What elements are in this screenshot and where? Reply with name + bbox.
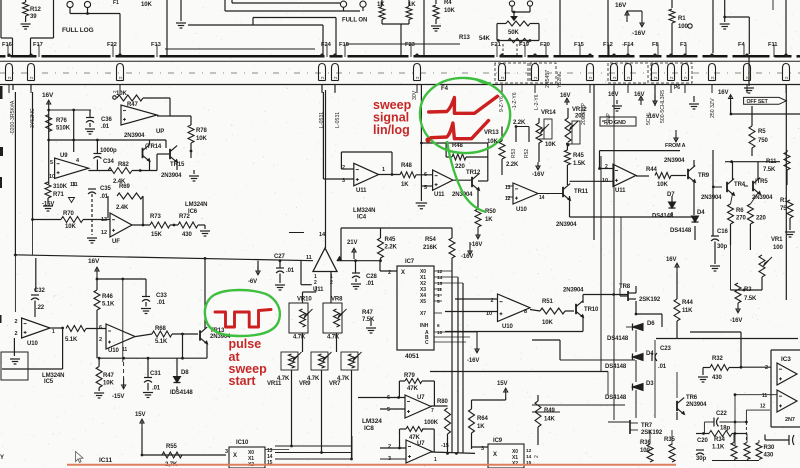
svg-text:100K: 100K	[424, 420, 439, 426]
svg-text:.01: .01	[157, 300, 166, 306]
svg-text:10K: 10K	[657, 182, 668, 188]
svg-text:VR12: VR12	[572, 107, 587, 113]
svg-text:F18: F18	[339, 42, 350, 48]
svg-text:R78: R78	[196, 128, 207, 134]
svg-text:LM324N: LM324N	[353, 208, 375, 214]
svg-text:C22: C22	[716, 411, 727, 417]
svg-text:2N3904: 2N3904	[556, 222, 577, 228]
svg-text:216K: 216K	[423, 245, 438, 251]
svg-text:R45: R45	[573, 153, 584, 159]
svg-text:30V: 30V	[412, 90, 418, 100]
svg-text:UF: UF	[112, 239, 120, 245]
svg-text:IDS4148: IDS4148	[170, 390, 193, 396]
svg-text:1K: 1K	[477, 424, 485, 430]
svg-text:IC9: IC9	[493, 438, 503, 444]
svg-text:DS4148: DS4148	[605, 395, 627, 401]
svg-text:R13: R13	[459, 35, 470, 41]
svg-text:-15: -15	[441, 443, 449, 449]
svg-text:D4: D4	[646, 351, 654, 357]
svg-text:-16V: -16V	[532, 172, 544, 178]
svg-text:5.1K: 5.1K	[155, 339, 168, 345]
svg-text:1K: 1K	[401, 182, 409, 188]
svg-text:-16V: -16V	[632, 30, 646, 37]
svg-text:75: 75	[780, 206, 787, 212]
svg-text:50K: 50K	[508, 30, 519, 36]
svg-text:F24: F24	[321, 42, 332, 48]
svg-text:D6: D6	[647, 321, 655, 327]
svg-text:.01: .01	[366, 281, 375, 287]
svg-text:FROM A: FROM A	[665, 143, 686, 149]
svg-text:R70: R70	[63, 211, 74, 217]
svg-text:2: 2	[342, 165, 345, 171]
svg-text:4.7K: 4.7K	[293, 335, 306, 341]
svg-text:R73: R73	[150, 214, 161, 220]
svg-text:5.1K: 5.1K	[65, 337, 78, 343]
svg-text:2SK192: 2SK192	[641, 430, 663, 436]
svg-text:.01: .01	[286, 268, 295, 274]
svg-text:1K: 1K	[485, 217, 493, 223]
svg-text:10: 10	[602, 178, 608, 184]
svg-text:VR1: VR1	[771, 237, 783, 243]
svg-text:R51: R51	[542, 299, 553, 305]
svg-text:IC5: IC5	[44, 379, 54, 385]
svg-text:R3: R3	[744, 287, 752, 293]
svg-text:start: start	[229, 374, 257, 388]
svg-text:2N3904: 2N3904	[752, 195, 773, 201]
svg-text:R48: R48	[401, 163, 412, 169]
svg-text:-16V: -16V	[730, 318, 742, 324]
svg-text:5: 5	[437, 299, 440, 305]
svg-text:7.5K: 7.5K	[763, 167, 776, 173]
svg-text:200: 200	[575, 114, 585, 120]
svg-text:R1: R1	[678, 16, 686, 22]
svg-text:16V: 16V	[718, 90, 728, 96]
svg-text:.01: .01	[658, 364, 667, 370]
svg-text:F23: F23	[405, 42, 416, 48]
svg-text:R55: R55	[166, 444, 177, 450]
svg-text:IC11: IC11	[99, 457, 112, 464]
svg-text:15V: 15V	[497, 381, 507, 387]
svg-text:1.1K: 1.1K	[712, 445, 725, 451]
svg-text:IC4: IC4	[357, 215, 367, 221]
svg-text:2: 2	[99, 337, 102, 343]
svg-text:LM324: LM324	[362, 418, 382, 425]
svg-text:2: 2	[15, 331, 18, 337]
svg-text:R71: R71	[53, 192, 64, 198]
svg-text:12: 12	[760, 404, 766, 410]
svg-text:2: 2	[605, 164, 608, 170]
svg-text:16V: 16V	[634, 92, 644, 98]
svg-text:VR9: VR9	[299, 381, 311, 387]
svg-text:510K: 510K	[56, 126, 71, 132]
svg-text:1.5K: 1.5K	[573, 161, 586, 167]
svg-text:pulse: pulse	[229, 337, 262, 351]
svg-text:-15V: -15V	[42, 202, 54, 208]
svg-text:9-Z-Y6: 9-Z-Y6	[499, 96, 505, 112]
svg-text:F22: F22	[107, 42, 117, 48]
svg-text:C: C	[425, 340, 429, 346]
svg-text:6: 6	[424, 172, 427, 178]
svg-text:VR11: VR11	[267, 381, 282, 387]
svg-text:2N3904: 2N3904	[701, 195, 722, 201]
svg-text:VR10: VR10	[297, 297, 312, 303]
svg-text:10K: 10K	[542, 320, 553, 326]
svg-text:TR12: TR12	[466, 170, 481, 176]
svg-text:12: 12	[101, 230, 107, 236]
svg-text:16V: 16V	[615, 2, 627, 9]
svg-text:R82: R82	[118, 162, 129, 168]
svg-text:R4: R4	[444, 0, 452, 6]
svg-text:16V: 16V	[560, 93, 570, 99]
svg-text:R44: R44	[646, 167, 657, 173]
svg-text:D4: D4	[697, 210, 705, 216]
svg-text:lin/log: lin/log	[373, 123, 410, 137]
svg-text:5: 5	[50, 160, 53, 166]
svg-text:14: 14	[437, 275, 443, 281]
svg-text:Y: Y	[0, 455, 4, 461]
svg-text:12: 12	[437, 269, 443, 275]
svg-text:2: 2	[388, 444, 391, 450]
svg-text:F4: F4	[441, 86, 449, 92]
svg-text:1: 1	[437, 293, 440, 299]
svg-text:VR14: VR14	[541, 110, 556, 116]
svg-text:10K: 10K	[487, 139, 498, 145]
svg-text:R80: R80	[437, 399, 448, 405]
svg-text:4.7K: 4.7K	[327, 335, 340, 341]
svg-text:-16V: -16V	[470, 242, 482, 248]
svg-text:C27: C27	[274, 254, 285, 260]
svg-text:8: 8	[524, 309, 527, 315]
svg-text:R6: R6	[736, 208, 744, 214]
svg-text:750: 750	[758, 138, 768, 144]
svg-text:15K: 15K	[151, 232, 162, 238]
svg-text:R53: R53	[511, 149, 517, 158]
svg-text:11: 11	[437, 287, 442, 293]
svg-text:IC3: IC3	[781, 356, 791, 363]
svg-text:D3: D3	[646, 381, 654, 387]
svg-text:TR8: TR8	[619, 284, 631, 290]
svg-text:21V: 21V	[347, 240, 357, 246]
svg-text:U11: U11	[434, 192, 445, 198]
svg-text:14: 14	[526, 454, 532, 460]
svg-text:C35: C35	[100, 186, 111, 192]
svg-text:UP: UP	[156, 129, 164, 135]
svg-text:TR10: TR10	[584, 307, 599, 313]
svg-text:430: 430	[712, 375, 722, 381]
svg-text:C36: C36	[101, 117, 112, 123]
svg-text:X: X	[401, 270, 405, 276]
svg-text:2N3904: 2N3904	[161, 173, 182, 179]
svg-text:1000p: 1000p	[100, 148, 117, 154]
svg-text:10K: 10K	[196, 136, 207, 142]
svg-text:220: 220	[756, 216, 766, 222]
svg-text:2SK192: 2SK192	[639, 297, 661, 303]
svg-text:10K: 10K	[444, 8, 455, 14]
svg-text:7.5K: 7.5K	[362, 317, 375, 323]
svg-text:D7: D7	[667, 192, 675, 198]
svg-text:F11: F11	[768, 42, 778, 48]
svg-text:R47: R47	[362, 310, 373, 316]
svg-text:.01: .01	[101, 124, 110, 130]
svg-text:.22: .22	[36, 305, 45, 311]
svg-text:15: 15	[437, 281, 443, 287]
svg-text:R49: R49	[544, 408, 555, 414]
svg-text:IC8: IC8	[364, 425, 374, 432]
svg-text:IC6: IC6	[188, 209, 198, 215]
svg-text:-16V: -16V	[647, 114, 659, 120]
svg-text:L-0531: L-0531	[319, 112, 325, 128]
svg-text:DS4148: DS4148	[605, 364, 627, 370]
svg-text:LM324N: LM324N	[185, 202, 207, 208]
svg-text:C16: C16	[717, 229, 728, 235]
svg-text:270: 270	[736, 216, 746, 222]
svg-text:2N3904: 2N3904	[124, 133, 145, 139]
svg-text:TR4: TR4	[734, 182, 746, 188]
svg-text:TR7: TR7	[641, 423, 653, 429]
svg-text:F16: F16	[2, 42, 13, 48]
svg-text:L-2-Y6: L-2-Y6	[534, 94, 540, 110]
svg-text:14K: 14K	[544, 417, 555, 423]
svg-text:1: 1	[382, 167, 385, 173]
svg-text:16V: 16V	[88, 258, 100, 265]
svg-text:100: 100	[640, 448, 650, 454]
svg-text:L-0531: L-0531	[335, 112, 341, 128]
svg-text:U9: U9	[60, 153, 68, 159]
svg-text:430: 430	[182, 232, 192, 238]
svg-text:3: 3	[225, 449, 228, 455]
svg-text:6: 6	[437, 323, 440, 329]
svg-text:X7: X7	[420, 311, 426, 317]
svg-text:VR7: VR7	[329, 381, 341, 387]
svg-text:2: 2	[765, 365, 768, 371]
svg-text:X: X	[233, 453, 237, 459]
svg-text:F1: F1	[113, 0, 119, 6]
svg-text:2: 2	[314, 280, 317, 286]
svg-text:R76: R76	[56, 118, 67, 124]
svg-text:C28: C28	[366, 274, 377, 280]
svg-text:D8: D8	[181, 370, 189, 376]
svg-text:10: 10	[437, 330, 443, 336]
svg-text:C33: C33	[156, 293, 167, 299]
svg-text:47K: 47K	[407, 386, 418, 392]
svg-text:16V: 16V	[608, 92, 618, 98]
svg-text:C31: C31	[150, 371, 161, 377]
svg-text:U10: U10	[27, 341, 38, 347]
svg-text:C32: C32	[34, 288, 45, 294]
svg-text:C34: C34	[103, 159, 114, 165]
svg-text:220: 220	[455, 164, 465, 170]
svg-text:R5: R5	[758, 129, 766, 135]
svg-text:R50: R50	[485, 209, 496, 215]
svg-text:2N3904: 2N3904	[563, 288, 584, 294]
svg-text:12: 12	[526, 448, 532, 454]
svg-text:-16V: -16V	[467, 358, 479, 364]
svg-text:X: X	[493, 452, 497, 458]
svg-text:310K: 310K	[53, 184, 68, 190]
svg-text:30p: 30p	[696, 456, 706, 462]
svg-text:F12: F12	[603, 42, 613, 48]
svg-text:18p: 18p	[720, 426, 730, 432]
svg-text:2N5457: 2N5457	[545, 70, 551, 88]
svg-text:16V: 16V	[42, 92, 54, 99]
svg-text:U11: U11	[615, 188, 626, 194]
svg-text:DS4148: DS4148	[607, 336, 629, 342]
svg-text:R79: R79	[404, 373, 415, 379]
svg-text:5.1K: 5.1K	[102, 302, 115, 308]
svg-text:F13: F13	[151, 42, 162, 48]
svg-text:R35: R35	[664, 437, 675, 443]
svg-text:2: 2	[15, 319, 18, 325]
svg-text:3: 3	[342, 178, 345, 184]
svg-text:DS4148: DS4148	[670, 228, 692, 234]
svg-text:FULL ON: FULL ON	[342, 18, 367, 24]
svg-text:R1: R1	[780, 198, 788, 204]
svg-text:2.2K: 2.2K	[506, 162, 519, 168]
svg-text:R11: R11	[766, 159, 777, 165]
svg-text:R12: R12	[30, 7, 41, 13]
svg-text:R54: R54	[425, 237, 436, 243]
svg-text:2: 2	[534, 455, 540, 458]
svg-text:R44: R44	[682, 300, 693, 306]
svg-text:R64: R64	[477, 416, 488, 422]
svg-text:250 3ZV: 250 3ZV	[710, 98, 716, 118]
svg-text:7.5K: 7.5K	[744, 296, 757, 302]
svg-text:10K: 10K	[141, 2, 152, 8]
svg-text:7: 7	[431, 408, 434, 414]
svg-text:X5: X5	[420, 299, 426, 305]
svg-text:IC7: IC7	[405, 259, 415, 265]
svg-text:R47: R47	[103, 373, 114, 379]
svg-text:-16V: -16V	[461, 254, 473, 260]
svg-text:R69: R69	[119, 184, 130, 190]
svg-text:Y52NC: Y52NC	[557, 71, 563, 88]
svg-text:100: 100	[678, 24, 688, 30]
svg-text:VR8: VR8	[331, 297, 343, 303]
svg-text:R30: R30	[764, 445, 775, 451]
svg-text:10: 10	[49, 174, 55, 180]
svg-text:1: 1	[52, 329, 55, 335]
svg-text:10K: 10K	[65, 224, 76, 230]
svg-text:OFF SET: OFF SET	[747, 99, 769, 105]
svg-text:R34: R34	[714, 437, 725, 443]
svg-text:TR9: TR9	[698, 173, 710, 179]
svg-text:IC10: IC10	[236, 440, 249, 446]
svg-text:14: 14	[539, 195, 545, 201]
svg-text:F17: F17	[33, 42, 43, 48]
svg-text:TR6: TR6	[686, 395, 698, 401]
svg-text:430: 430	[764, 453, 774, 459]
svg-text:C20: C20	[697, 438, 708, 444]
svg-text:-15V: -15V	[112, 394, 124, 400]
svg-text:100: 100	[773, 245, 783, 251]
svg-text:R46: R46	[102, 294, 113, 300]
svg-text:11: 11	[762, 393, 767, 399]
svg-text:U7: U7	[417, 395, 425, 401]
svg-text:11: 11	[122, 347, 127, 353]
svg-text:FULL LOG: FULL LOG	[62, 27, 94, 34]
svg-text:U7: U7	[417, 441, 425, 447]
svg-text:2.4K: 2.4K	[116, 205, 129, 211]
svg-text:.01: .01	[152, 386, 161, 392]
svg-text:TR11: TR11	[574, 189, 589, 195]
svg-text:4051: 4051	[405, 353, 420, 360]
svg-text:6: 6	[99, 325, 102, 331]
svg-text:-1-Z-Y6: -1-Z-Y6	[512, 92, 518, 110]
svg-text:54K: 54K	[479, 36, 490, 42]
svg-text:16V: 16V	[666, 257, 676, 263]
svg-text:U10: U10	[516, 207, 527, 213]
svg-text:C23: C23	[660, 346, 671, 352]
svg-text:11: 11	[306, 255, 312, 261]
svg-text:30p: 30p	[717, 244, 727, 250]
svg-text:2N3904: 2N3904	[664, 158, 685, 164]
svg-text:F21: F21	[491, 42, 502, 48]
svg-text:10K: 10K	[545, 142, 556, 148]
svg-text:F20: F20	[540, 42, 550, 48]
svg-text:500-5CHL3R5: 500-5CHL3R5	[660, 90, 666, 123]
svg-text:F15: F15	[574, 42, 585, 48]
svg-text:P6: P6	[674, 85, 680, 91]
svg-text:U11: U11	[356, 188, 367, 194]
svg-text:2.2K: 2.2K	[513, 120, 526, 126]
svg-text:2.2K: 2.2K	[385, 245, 398, 251]
svg-text:U10: U10	[108, 348, 119, 354]
svg-text:U10: U10	[502, 324, 513, 330]
svg-text:R52: R52	[524, 149, 530, 158]
svg-text:F19: F19	[519, 42, 530, 48]
svg-text:2N7: 2N7	[785, 417, 795, 423]
svg-text:R32: R32	[712, 356, 723, 362]
svg-text:-6V: -6V	[248, 279, 257, 285]
svg-text:INH: INH	[420, 323, 429, 329]
svg-text:VR13: VR13	[484, 130, 499, 136]
svg-text:39: 39	[30, 14, 37, 20]
svg-text:11K: 11K	[682, 308, 693, 314]
svg-text:15V: 15V	[135, 412, 145, 418]
svg-text:1: 1	[434, 457, 437, 463]
svg-text:5: 5	[387, 407, 390, 413]
